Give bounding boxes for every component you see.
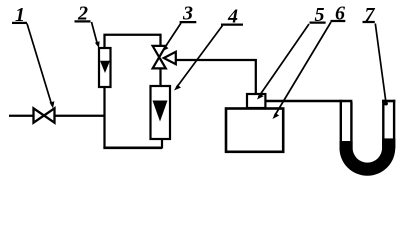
leader line 7 bbox=[375, 24, 388, 106]
wire: box 5 to manometer bbox=[265, 100, 352, 102]
sensor box 5 bbox=[247, 94, 265, 108]
wire: valve 3 to box 5 bbox=[175, 60, 256, 94]
wire: loop top bbox=[105, 35, 161, 48]
U bend (filled) bbox=[339, 148, 395, 176]
label 1 bbox=[12, 4, 27, 26]
label 2 bbox=[75, 3, 91, 25]
label 5 bbox=[310, 4, 326, 26]
wire: stub under rotameter 4 bbox=[161, 139, 163, 149]
wire: inlet pipe bbox=[9, 115, 34, 117]
wire: valve to loop bbox=[55, 115, 105, 117]
left arm left wall bbox=[340, 100, 342, 148]
right arm right wall bbox=[393, 100, 395, 148]
rotameter 2 (flow meter) bbox=[99, 48, 111, 87]
leader line 4 bbox=[174, 26, 223, 91]
liquid right column bbox=[382, 138, 395, 148]
leader line 3 bbox=[162, 23, 181, 51]
label 3 bbox=[180, 3, 197, 25]
rotameter 4 (flow meter) bbox=[151, 86, 171, 139]
three-way valve 3 bbox=[153, 46, 176, 69]
right arm top cap bbox=[382, 100, 395, 103]
liquid left column bbox=[340, 141, 353, 148]
label 6 bbox=[331, 3, 346, 25]
leader line 2 bbox=[92, 22, 100, 48]
leader line 1 bbox=[27, 24, 54, 109]
wire: loop bottom bbox=[103, 146, 162, 149]
chamber 6 bbox=[226, 109, 283, 152]
right arm left wall bbox=[382, 100, 384, 148]
left arm right wall bbox=[350, 102, 352, 148]
leader line 6 bbox=[273, 22, 332, 119]
label 4 bbox=[221, 5, 243, 27]
leader line 5 bbox=[257, 24, 309, 100]
wire: valve 3 to rotameter 4 bbox=[159, 69, 161, 86]
label 7 bbox=[363, 4, 376, 26]
valve 1 (bowtie) bbox=[34, 108, 55, 122]
U-tube manometer 7 bbox=[339, 100, 395, 176]
wire: loop left vertical bbox=[103, 87, 105, 149]
